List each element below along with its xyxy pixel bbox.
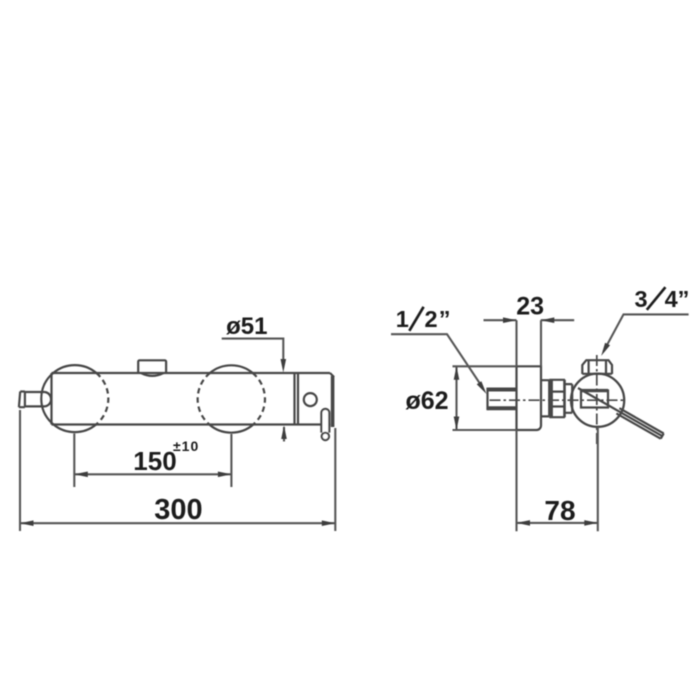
- center line horizontal (right view): [490, 399, 626, 401]
- diverter button skirt arc: [141, 373, 164, 376]
- left knob circle solid arcs: [53, 365, 96, 373]
- dim 1/2 leader: [391, 334, 482, 386]
- body separator double line: [293, 373, 295, 425]
- arrowheads: [20, 317, 610, 526]
- body left edge: [50, 373, 52, 425]
- temperature lever left cap: [19, 392, 25, 408]
- valve body circle: [571, 374, 624, 427]
- svg-text:23: 23: [516, 292, 544, 320]
- inlet pipe outline: [486, 388, 488, 411]
- svg-text:±10: ±10: [173, 438, 199, 454]
- body bottom line: [52, 423, 331, 425]
- dim 3/4 leader: [604, 314, 689, 351]
- arrow o51 up at body bottom: [281, 426, 287, 440]
- left knob circle dashed hidden arc: [96, 373, 108, 425]
- svg-text:3: 3: [635, 286, 648, 312]
- dim o51 leader: [222, 339, 284, 362]
- dim 78 line: [517, 522, 598, 524]
- arrow 23 left-pointing: [541, 317, 555, 323]
- arrow 23 right-pointing: [503, 317, 517, 323]
- svg-text:150: 150: [133, 446, 176, 476]
- temperature lever body: [25, 392, 45, 406]
- svg-text:78: 78: [544, 495, 575, 526]
- arrow 1/2 leader: [477, 381, 487, 394]
- wall plate: [517, 366, 542, 430]
- arrow 150 left: [74, 472, 88, 478]
- body right cap chamfer: [330, 373, 334, 377]
- outlet ring: [322, 433, 329, 440]
- body right end thick edge: [331, 376, 335, 427]
- dim 300 line: [20, 522, 335, 524]
- dim 78 extension lines: [515, 430, 517, 531]
- right knob circle dashed hidden arcs: [253, 373, 265, 425]
- arrow 300 right: [322, 520, 336, 526]
- arrow 300 left: [20, 520, 34, 526]
- temperature lever round tip: [45, 392, 51, 406]
- dim 150 extension lines: [73, 434, 75, 488]
- svg-text:4”: 4”: [665, 286, 690, 312]
- screw hole: [304, 393, 317, 406]
- svg-text:ø62: ø62: [405, 387, 448, 415]
- arrow o62 up: [454, 366, 460, 380]
- svg-text:ø51: ø51: [226, 313, 267, 340]
- dim 300 extension lines: [19, 410, 21, 531]
- svg-text:1: 1: [396, 306, 409, 332]
- small cylinder before valve: [565, 384, 572, 413]
- body top line: [52, 372, 331, 374]
- handle diagonal line: [578, 388, 662, 436]
- center line vertical (right view): [596, 355, 598, 445]
- arrow 150 right: [218, 472, 232, 478]
- arrow 3/4 leader: [601, 343, 610, 356]
- dim o51 lower arrow tail: [283, 427, 285, 442]
- cartridge rectangle: [581, 389, 608, 407]
- dim 23 line segments: [484, 319, 517, 321]
- dim 150 line: [74, 473, 231, 475]
- dim 23 extension lines: [515, 320, 517, 366]
- svg-text:300: 300: [154, 494, 202, 526]
- svg-text:2”: 2”: [425, 306, 452, 332]
- inlet pipe thick bottom edge: [488, 406, 517, 410]
- arrow 78 right: [584, 520, 598, 526]
- dim o62 extension lines: [453, 365, 517, 367]
- arrow 78 left: [517, 520, 531, 526]
- spacer between plate and nut: [541, 380, 549, 416]
- lock nut hex flats: [549, 392, 565, 407]
- arrow o62 down: [454, 417, 460, 431]
- top diverter button: [138, 360, 166, 373]
- bottom outlet capsule: [321, 409, 329, 433]
- top 3/4 hex fitting: [582, 360, 612, 374]
- dim o62 line: [455, 366, 457, 430]
- right knob circle solid arcs: [210, 365, 253, 373]
- arrow o51 down at body top: [281, 359, 287, 373]
- lock nut: [549, 380, 565, 417]
- inlet pipe thick top edge: [488, 388, 517, 392]
- handle bar edges: [616, 408, 663, 439]
